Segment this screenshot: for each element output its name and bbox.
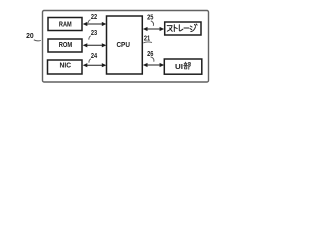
wire NIC-CPU double arrow 24 [83, 63, 107, 67]
wire CPU-storage double arrow 25 [143, 27, 164, 31]
box NIC [48, 60, 83, 74]
wire ROM-CPU double arrow 23 [83, 43, 107, 47]
box storage (stray-ji) [165, 22, 201, 35]
box UI unit [164, 59, 202, 74]
katakana JI (shi + dakuten) [190, 24, 197, 32]
leader hook for 20 [34, 40, 41, 41]
svg-text:21: 21 [144, 35, 150, 42]
svg-text:CPU: CPU [116, 40, 130, 49]
svg-text:24: 24 [91, 53, 97, 60]
katakana TO [174, 25, 177, 32]
svg-text:22: 22 [91, 14, 97, 21]
box ROM [48, 39, 82, 52]
outer enclosure box 20 [43, 11, 209, 83]
leader hook for 23 [89, 36, 91, 40]
box CPU 21 [107, 16, 143, 74]
katakana RE [179, 25, 183, 31]
leader hook for 26 [151, 57, 154, 62]
svg-text:25: 25 [147, 14, 153, 21]
leader hook for 21 [143, 42, 152, 43]
svg-text:UI: UI [175, 62, 183, 71]
svg-text:23: 23 [91, 30, 97, 37]
katakana long vowel bar [184, 27, 189, 29]
leader hook for 25 [151, 21, 154, 26]
wire RAM-CPU double arrow 22 [83, 22, 107, 26]
kanji BU (part) [184, 62, 191, 69]
leader hook for 22 [88, 20, 90, 23]
svg-text:RAM: RAM [59, 19, 72, 28]
leader hook for 24 [89, 59, 91, 63]
svg-text:ROM: ROM [59, 40, 73, 49]
svg-text:20: 20 [26, 31, 34, 40]
wire CPU-UI double arrow 26 [143, 63, 164, 67]
katakana SU [167, 26, 172, 32]
svg-text:26: 26 [147, 51, 153, 58]
box RAM [48, 18, 82, 31]
svg-text:NIC: NIC [60, 61, 72, 70]
